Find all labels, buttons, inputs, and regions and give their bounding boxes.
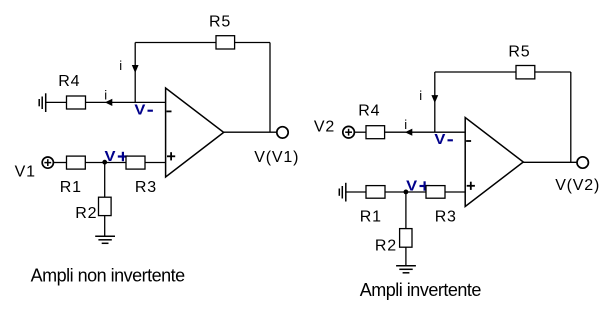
wire feedback vertical (down into node V-) <box>134 43 136 103</box>
wire V1 to R1 <box>53 162 66 164</box>
svg-text:R3: R3 <box>135 179 157 196</box>
output terminal V(V1) <box>254 127 299 166</box>
wire R4 to op-amp inverting input (node V-) <box>385 131 466 133</box>
resistor R4 <box>58 73 85 109</box>
wire V2 to R4 <box>354 131 366 133</box>
wire node V+ down to R2 (right) <box>405 192 407 229</box>
wire ground to R4 <box>46 101 67 103</box>
current arrow i downward <box>132 65 139 73</box>
svg-text:V: V <box>134 102 145 119</box>
svg-text:R1: R1 <box>360 209 382 226</box>
wire R3 to op-amp non-inverting input <box>145 162 166 164</box>
resistor R2 (right) <box>375 229 412 255</box>
node V+ label <box>105 148 129 165</box>
wire R4 to op-amp inverting input (node V-) <box>86 101 166 103</box>
op-amp U2 <box>465 118 523 207</box>
resistor R5 (right) <box>508 44 534 79</box>
source V2 <box>314 119 355 138</box>
resistor R1 <box>60 156 86 196</box>
resistor R1 (right) <box>360 186 385 226</box>
node V+ label (right) <box>406 177 430 194</box>
current arrow i downward (right) <box>431 95 438 103</box>
wire R1 to R3 through node V+ (right) <box>385 191 426 193</box>
wire feedback right vertical down to output <box>269 43 271 133</box>
node V+ junction dot <box>102 160 107 165</box>
wire R1 to R3 through node V+ <box>85 162 126 164</box>
svg-text:R4: R4 <box>358 102 380 119</box>
svg-text:V2: V2 <box>314 119 335 136</box>
node V- label (right) <box>434 131 453 148</box>
ground (below R2, right) <box>396 266 416 273</box>
wire feedback top right segment (right circuit) <box>535 71 571 73</box>
svg-text:R1: R1 <box>60 179 82 196</box>
svg-text:R5: R5 <box>209 13 231 30</box>
wire feedback top left segment (right circuit) <box>435 71 516 73</box>
wire feedback vertical (down into node V-, right) <box>434 72 436 132</box>
source V1 <box>15 157 54 181</box>
wire feedback top left segment <box>135 42 216 44</box>
current arrow i toward R4 <box>105 99 112 106</box>
wire R3 to op-amp non-inverting input (right) <box>445 191 465 193</box>
svg-text:i: i <box>119 58 122 73</box>
ground (left of R4) <box>39 93 46 112</box>
node V+ junction dot (right) <box>404 190 409 195</box>
ground (left of R1, right circuit) <box>339 183 346 202</box>
resistor R3 (right) <box>426 186 457 226</box>
wire R2 to ground <box>104 216 106 237</box>
wire node V+ down to R2 <box>104 162 106 197</box>
svg-text:R2: R2 <box>375 238 397 255</box>
svg-text:i: i <box>104 88 107 103</box>
svg-text:R2: R2 <box>75 205 97 222</box>
current arrow i toward R4 (right) <box>405 129 412 136</box>
node V- label <box>134 102 153 119</box>
wire feedback right vertical down to output (right circuit) <box>570 72 572 162</box>
resistor R3 <box>126 156 157 196</box>
wire R2 to ground (right) <box>405 247 407 266</box>
resistor R5 <box>209 13 235 49</box>
svg-text:R5: R5 <box>508 44 530 61</box>
wire op-amp output <box>224 131 277 133</box>
svg-text:R3: R3 <box>435 209 457 226</box>
svg-text:V(V1): V(V1) <box>254 149 299 166</box>
svg-text:V1: V1 <box>15 164 36 181</box>
svg-text:Ampli invertente: Ampli invertente <box>360 280 482 300</box>
wire ground to R1 (right) <box>346 191 366 193</box>
svg-text:R4: R4 <box>58 73 80 90</box>
wire feedback top right segment <box>235 42 270 44</box>
svg-text:V: V <box>105 148 116 165</box>
ground (below R2) <box>95 236 115 243</box>
resistor R4 (right) <box>358 102 384 138</box>
output terminal V(V2) <box>555 157 600 194</box>
op-amp U1 <box>166 88 224 177</box>
svg-text:i: i <box>419 88 422 103</box>
svg-text:V: V <box>406 177 417 194</box>
svg-text:V(V2): V(V2) <box>555 177 600 194</box>
wire op-amp output (right) <box>523 161 577 163</box>
svg-text:i: i <box>404 117 407 132</box>
resistor R2 <box>75 197 111 222</box>
svg-text:Ampli non invertente: Ampli non invertente <box>31 266 186 286</box>
svg-text:V: V <box>434 131 445 148</box>
